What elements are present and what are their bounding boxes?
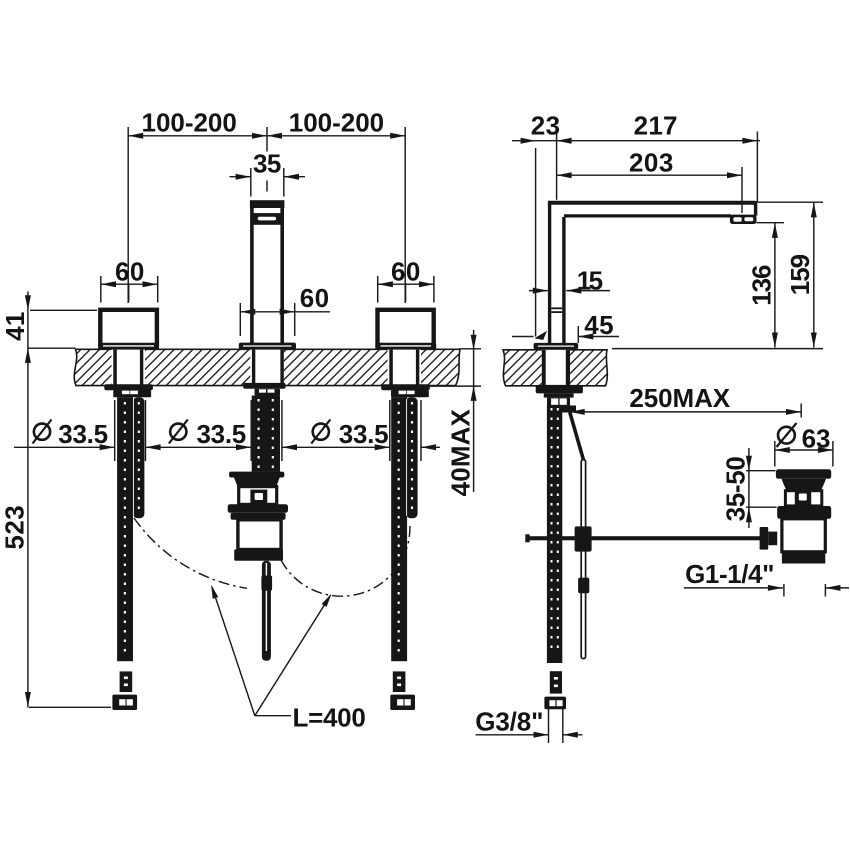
- side view faucet body: [550, 203, 564, 345]
- spout mounting nut front view: [243, 383, 285, 396]
- svg-text:35: 35: [253, 148, 281, 178]
- dimension 35-50 waste body: [720, 448, 776, 528]
- dimension G1-1/4 waste thread: [684, 559, 849, 597]
- dimension 523 overall height: [0, 506, 111, 708]
- side view mounting nut: [536, 385, 583, 406]
- side view hose end fitting G3/8: [544, 671, 566, 709]
- dimension 35 spout width: [230, 148, 306, 196]
- leader L=400 hose length: [211, 585, 365, 733]
- svg-text:33.5: 33.5: [58, 419, 108, 449]
- hose swing arc left (phantom): [134, 518, 247, 588]
- dimension diameter 33.5 middle: [169, 400, 390, 461]
- svg-text:60: 60: [300, 283, 329, 313]
- svg-text:203: 203: [629, 148, 673, 178]
- svg-text:217: 217: [634, 111, 678, 141]
- svg-text:41: 41: [0, 312, 30, 341]
- dimension 15 body depth: [529, 266, 610, 296]
- pop-up lift rod side view: [562, 406, 592, 659]
- dimension G3/8 hose thread: [475, 707, 582, 744]
- svg-text:523: 523: [0, 506, 30, 550]
- svg-text:250MAX: 250MAX: [629, 383, 730, 413]
- left handle hole through counter: [112, 350, 146, 386]
- pop-up rod front view: [261, 561, 272, 661]
- pop-up waste side view: [776, 469, 831, 563]
- aerator on spout tip: [730, 215, 757, 224]
- dimension 100-200 left: [128, 108, 267, 304]
- left hose end fitting G3/8: [112, 671, 137, 710]
- svg-text:45: 45: [584, 310, 613, 340]
- svg-text:15: 15: [577, 266, 603, 296]
- left handle mounting nut: [104, 384, 153, 397]
- svg-text:33.5: 33.5: [196, 419, 246, 449]
- svg-text:G1-1/4": G1-1/4": [685, 559, 774, 589]
- pop-up waste front view: [228, 472, 288, 561]
- spout base plate front view: [239, 343, 296, 350]
- countertop side view (hatched section): [503, 350, 607, 386]
- dimension 217 spout reach: [634, 111, 758, 202]
- dimension 60 spout base plate: [240, 283, 330, 336]
- right hose end fitting G3/8: [390, 671, 415, 710]
- dimension 159 spout top height: [612, 202, 823, 348]
- svg-text:60: 60: [115, 257, 144, 287]
- svg-text:100-200: 100-200: [142, 108, 237, 138]
- right handle body: [375, 310, 436, 350]
- right handle mounting nut: [381, 384, 430, 397]
- svg-text:159: 159: [785, 254, 815, 295]
- dimension 250MAX rod reach: [570, 383, 802, 418]
- dimension 23 spout offset: [512, 111, 760, 337]
- svg-text:35-50: 35-50: [720, 456, 750, 521]
- left handle body: [98, 310, 159, 350]
- svg-text:60: 60: [391, 257, 420, 287]
- right handle flexible hose: [391, 397, 412, 661]
- svg-text:L=400: L=400: [293, 703, 366, 733]
- svg-text:G3/8": G3/8": [475, 707, 543, 737]
- dimension 60 right handle: [378, 257, 434, 303]
- dimension 60 left handle: [101, 257, 158, 303]
- dimension 40MAX counter thickness: [413, 330, 481, 496]
- svg-text:136: 136: [747, 265, 777, 306]
- side view base plate: [534, 343, 579, 350]
- left handle threaded stud: [133, 397, 144, 518]
- svg-text:33.5: 33.5: [339, 419, 389, 449]
- dimension diameter 33.5 right: [311, 400, 440, 461]
- spout column front view: [250, 200, 285, 343]
- svg-text:23: 23: [531, 111, 560, 141]
- spout hole through counter: [250, 350, 284, 385]
- dimension diameter 33.5 left: [14, 400, 251, 461]
- dimension 100-200 right: [267, 108, 405, 304]
- svg-text:40MAX: 40MAX: [446, 408, 476, 496]
- side view faucet hole through counter: [542, 350, 570, 385]
- dimension 203 aerator reach: [557, 148, 742, 214]
- spout threaded shank front view: [252, 396, 280, 472]
- dimension diameter 63 waste flange: [775, 423, 833, 467]
- svg-text:100-200: 100-200: [289, 108, 384, 138]
- dimension 136 spout underside height: [747, 223, 785, 348]
- svg-text:63: 63: [802, 424, 831, 454]
- pop-up rod clevis at drain: [760, 527, 778, 550]
- side view flexible hose: [547, 406, 562, 664]
- left handle flexible hose: [117, 397, 139, 661]
- right handle threaded stud: [406, 397, 417, 518]
- side view spout arm: [548, 201, 756, 216]
- dimension 45 base plate depth: [512, 310, 619, 343]
- right handle hole through counter: [388, 350, 422, 386]
- countertop front view (hatched section): [74, 349, 460, 385]
- dimension 41 handle height: [0, 292, 97, 708]
- hose swing arc right (phantom): [281, 524, 410, 596]
- pop-up horizontal rod side view: [525, 534, 762, 542]
